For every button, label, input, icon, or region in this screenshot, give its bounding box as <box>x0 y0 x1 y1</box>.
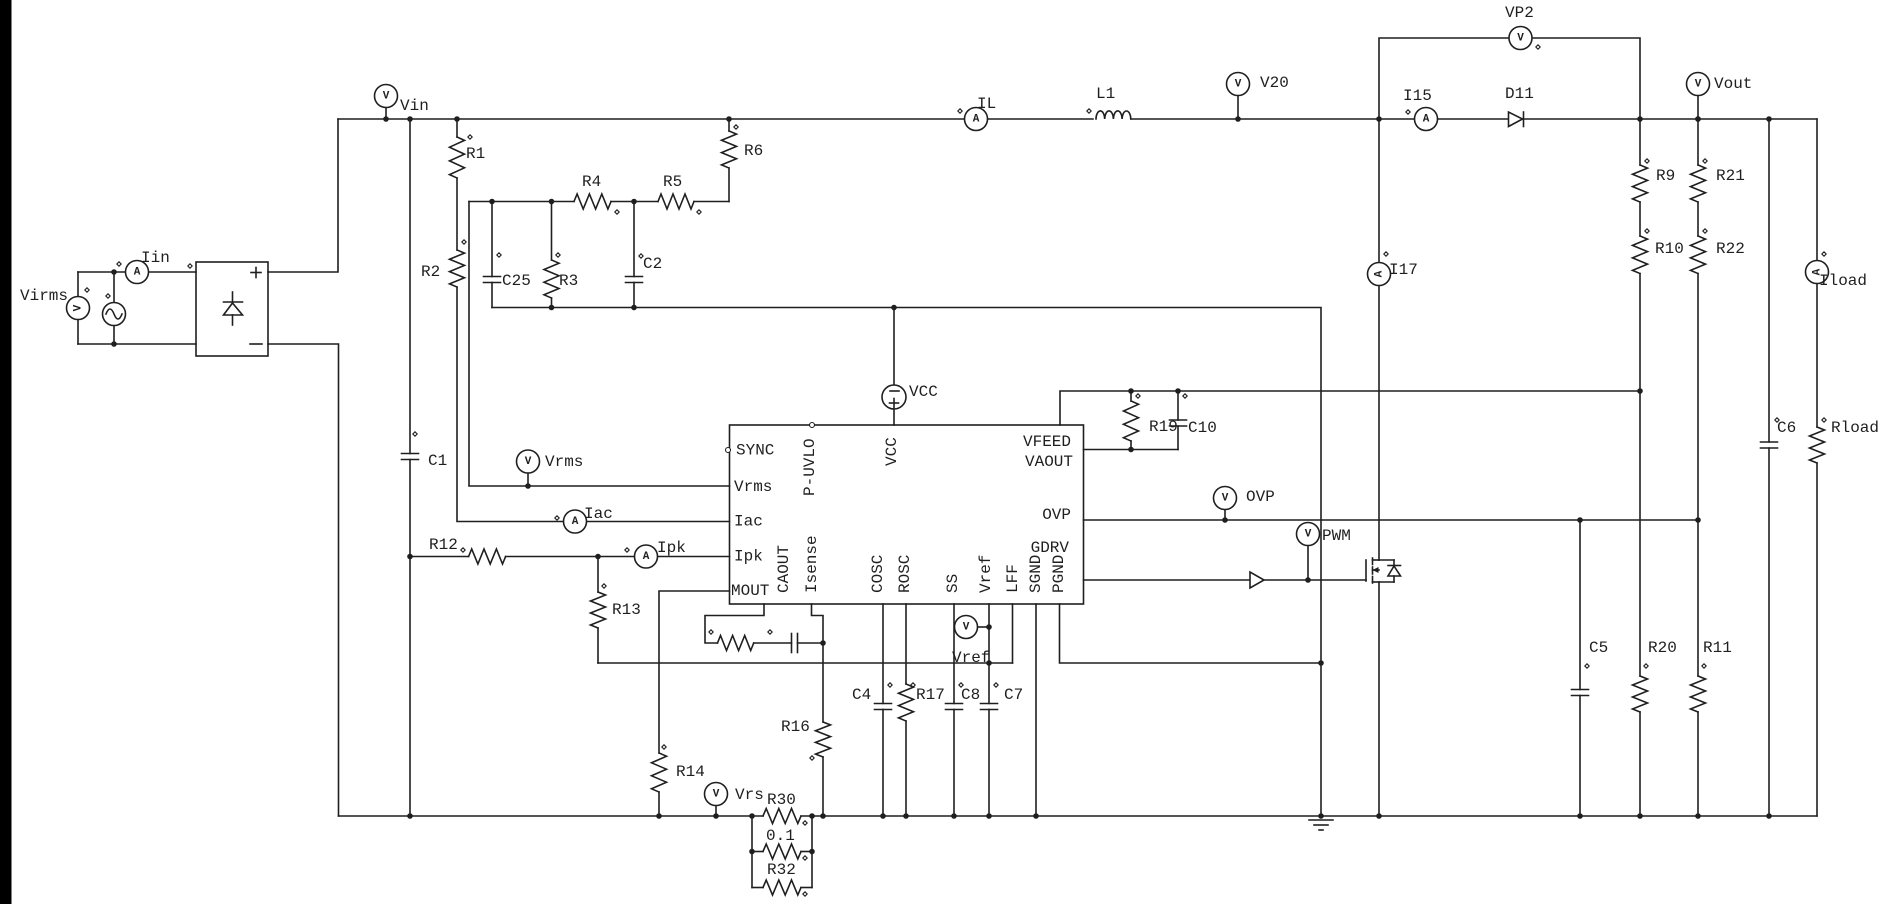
svg-text:C6: C6 <box>1777 419 1796 437</box>
capacitor C8 (SS) <box>953 604 955 704</box>
resistor R17 (ROSC) <box>905 604 907 684</box>
svg-text:V: V <box>1305 529 1312 541</box>
svg-text:Rload: Rload <box>1831 419 1879 437</box>
resistor R32 (parallel) <box>752 887 763 889</box>
wire: Ccomp to Isense column <box>798 642 824 644</box>
capacitor C25 <box>489 199 495 205</box>
wire: switch column (drain) <box>1378 119 1380 560</box>
ammeter Ipk <box>635 545 658 568</box>
node: C2 on sub-rail <box>631 305 637 311</box>
svg-text:L1: L1 <box>1096 85 1115 103</box>
svg-text:C25: C25 <box>502 272 531 290</box>
node: C5 on OVP line <box>1577 517 1583 523</box>
resistor 0.1 (parallel) <box>752 851 763 853</box>
wire: bridge + output up to Vin rail <box>268 119 338 272</box>
pin label SYNC <box>726 448 731 453</box>
wire: VP2 measurement loop <box>1379 38 1640 119</box>
ammeter I17 <box>1368 263 1391 286</box>
svg-text:A: A <box>1423 114 1430 126</box>
capacitor C5 <box>1579 520 1581 690</box>
svg-text:R1: R1 <box>466 145 485 163</box>
svg-text:Iac: Iac <box>734 513 763 531</box>
wire: SGND pin to ground rail <box>1035 604 1037 816</box>
node: source top junction <box>111 269 117 275</box>
resistor R9 <box>1639 119 1641 165</box>
svg-text:SGND: SGND <box>1027 555 1045 593</box>
svg-text:Iload: Iload <box>1819 272 1867 290</box>
wire: source branch vertical <box>113 272 115 344</box>
svg-text:VCC: VCC <box>883 437 901 466</box>
svg-text:CAOUT: CAOUT <box>775 545 793 593</box>
supply VCC source <box>882 385 906 409</box>
wire: source loop top <box>78 271 196 273</box>
svg-text:Vref: Vref <box>977 555 995 593</box>
wire: bottom ground rail <box>339 815 764 817</box>
voltmeter PWM <box>1307 545 1309 580</box>
svg-text:0.1: 0.1 <box>766 827 795 845</box>
capacitor Ccomp (CAOUT network) <box>791 634 793 653</box>
node: R13 taps Ipk wire <box>595 554 601 560</box>
svg-text:SYNC: SYNC <box>736 442 774 460</box>
node: PGND joins ground column <box>1318 660 1324 666</box>
node: C1 column on rail <box>407 116 413 122</box>
resistor R21 <box>1695 116 1701 122</box>
svg-text:V20: V20 <box>1260 74 1289 92</box>
svg-text:R30: R30 <box>767 791 796 809</box>
wire: MOUT pin to R14 <box>659 591 730 753</box>
resistor R4 <box>574 194 611 209</box>
wire: CAOUT pin stub <box>705 604 764 643</box>
wire: R13 bottom rail to LFF <box>598 662 1013 664</box>
svg-text:MOUT: MOUT <box>731 582 769 600</box>
svg-text:V: V <box>1695 79 1702 91</box>
svg-text:COSC: COSC <box>869 555 887 593</box>
node: R3 on sub-rail <box>549 305 555 311</box>
capacitor C6 <box>1766 116 1772 122</box>
resistor R16 <box>816 722 831 757</box>
svg-text:R9: R9 <box>1656 167 1675 185</box>
resistor R6 <box>728 119 730 131</box>
wire: rail corner to load column <box>1816 119 1818 427</box>
node: R1 column on rail <box>454 116 460 122</box>
wire: R22 to R11 <box>1697 274 1699 677</box>
wire: node rail down to Vrms pin <box>469 202 730 487</box>
svg-text:R16: R16 <box>781 718 810 736</box>
bridge rectifier B1 box <box>196 262 268 356</box>
node: C1 on ground rail <box>407 813 413 819</box>
ammeter Iin <box>126 261 149 284</box>
resistor Rcomp (CAOUT network) <box>718 636 754 651</box>
ground symbol <box>1318 813 1324 819</box>
svg-text:P-UVLO: P-UVLO <box>801 438 819 496</box>
capacitor C2 <box>631 199 637 205</box>
wire: switch column (source to ground) <box>1378 582 1380 816</box>
wire: divider node rail <box>469 201 574 203</box>
svg-text:Vref: Vref <box>952 649 990 667</box>
wire: LFF pin stub <box>1012 604 1014 663</box>
resistor R30 (in rail) <box>763 809 801 824</box>
node: VCC stem on sub-rail <box>891 305 897 311</box>
wire: PGND pin to ground column <box>1060 604 1322 663</box>
node: R14 on ground rail <box>656 813 662 819</box>
resistor R13 <box>597 557 599 593</box>
wire: OVP pin line <box>1084 519 1699 521</box>
ammeter IL <box>965 108 988 131</box>
wire: Isense pin stub down to R16 <box>812 604 824 722</box>
svg-text:C4: C4 <box>852 686 871 704</box>
svg-text:Ipk: Ipk <box>657 539 686 557</box>
svg-text:A: A <box>134 267 141 279</box>
capacitor C7 (Vref) <box>988 604 990 704</box>
resistor R1 <box>456 119 458 137</box>
svg-text:R12: R12 <box>429 536 458 554</box>
pin label P-UVLO <box>810 423 815 428</box>
svg-text:LFF: LFF <box>1004 564 1022 593</box>
svg-text:R14: R14 <box>676 763 705 781</box>
voltmeter V20 <box>1237 96 1239 119</box>
wire: VCC feedback rail <box>1060 391 1640 425</box>
resistor R5 <box>658 194 694 209</box>
svg-text:R2: R2 <box>421 263 440 281</box>
node: R12 taps C1 column <box>407 554 413 560</box>
node: R6 column on rail <box>726 116 732 122</box>
voltmeter Vref <box>978 626 990 628</box>
resistor R20 <box>1633 676 1648 712</box>
svg-text:R17: R17 <box>916 686 945 704</box>
resistor R2 <box>450 250 465 287</box>
svg-text:Iac: Iac <box>584 505 613 523</box>
diode D11 <box>1509 112 1523 127</box>
svg-text:C10: C10 <box>1188 419 1217 437</box>
svg-text:R4: R4 <box>582 173 601 191</box>
svg-text:V: V <box>73 304 85 311</box>
svg-text:C1: C1 <box>428 452 447 470</box>
node: VP2 right leg on rail <box>1637 116 1643 122</box>
wire: R1 to R2 <box>456 178 458 250</box>
voltmeter VP2 <box>1509 27 1532 50</box>
wire: Rcomp to Ccomp <box>754 642 792 644</box>
svg-text:PWM: PWM <box>1322 527 1351 545</box>
transistor Q1 (MOSFET) <box>1365 560 1367 581</box>
svg-text:R10: R10 <box>1655 240 1684 258</box>
svg-text:A: A <box>643 551 650 563</box>
svg-text:R5: R5 <box>663 173 682 191</box>
wire: VCC stem <box>893 308 895 386</box>
svg-text:IL: IL <box>977 95 996 113</box>
wire: buffer to gate <box>1264 579 1366 581</box>
wire: source loop bottom <box>78 343 196 345</box>
voltmeter Virms <box>67 297 90 320</box>
wire: VFEED pin <box>1084 449 1179 451</box>
svg-text:OVP: OVP <box>1246 488 1275 506</box>
svg-text:R22: R22 <box>1716 240 1745 258</box>
svg-text:C2: C2 <box>643 255 662 273</box>
svg-text:V: V <box>713 789 720 801</box>
AC source V1 <box>103 303 126 326</box>
svg-text:R20: R20 <box>1648 639 1677 657</box>
svg-text:D11: D11 <box>1505 85 1534 103</box>
capacitor C1 <box>409 119 411 454</box>
svg-text:A: A <box>572 516 579 528</box>
svg-text:A: A <box>1374 270 1386 277</box>
svg-text:Virms: Virms <box>20 287 68 305</box>
svg-text:R21: R21 <box>1716 167 1745 185</box>
wire: main top rail (Vin node) <box>338 118 1093 120</box>
svg-text:VP2: VP2 <box>1505 4 1534 22</box>
voltmeter Vin <box>385 108 387 119</box>
capacitor C4 (COSC) <box>882 604 884 704</box>
wire: R10 to R20 <box>1639 274 1641 677</box>
resistor R3 <box>549 199 555 205</box>
svg-text:C5: C5 <box>1589 639 1608 657</box>
svg-text:Vrs: Vrs <box>735 786 764 804</box>
node: OVP line to R22/R11 column <box>1695 517 1701 523</box>
svg-text:I17: I17 <box>1389 261 1418 279</box>
resistor R10 <box>1639 202 1641 236</box>
wire: sub-rail to PGND ground column <box>492 308 1321 817</box>
R30/R32 parallel network right leg <box>811 816 813 888</box>
svg-text:Ipk: Ipk <box>734 548 763 566</box>
voltmeter Vrms <box>527 473 529 486</box>
polarity marks <box>85 288 89 292</box>
svg-text:VCC: VCC <box>909 383 938 401</box>
inductor L1 <box>1096 111 1131 119</box>
svg-text:VFEED: VFEED <box>1023 433 1071 451</box>
resistor R14 <box>652 753 667 792</box>
svg-text:GDRV: GDRV <box>1031 539 1070 557</box>
svg-text:R13: R13 <box>612 601 641 619</box>
node: source bottom junction <box>111 341 117 347</box>
ammeter I15 <box>1415 108 1438 131</box>
svg-text:Iin: Iin <box>141 249 170 267</box>
svg-text:VAOUT: VAOUT <box>1025 453 1073 471</box>
svg-text:Vrms: Vrms <box>545 453 583 471</box>
svg-text:OVP: OVP <box>1042 506 1071 524</box>
svg-text:R32: R32 <box>767 861 796 879</box>
svg-text:V: V <box>1517 33 1524 45</box>
resistor R19 <box>1128 388 1134 394</box>
svg-text:C7: C7 <box>1004 686 1023 704</box>
svg-text:R6: R6 <box>744 142 763 160</box>
svg-text:I15: I15 <box>1403 87 1432 105</box>
transistor Q1 body diode <box>1379 559 1394 561</box>
svg-text:V: V <box>383 91 390 103</box>
voltmeter OVP <box>1224 509 1226 520</box>
resistor R11 <box>1691 676 1706 712</box>
wire: GDRV pin line <box>1084 579 1251 581</box>
svg-text:V: V <box>525 456 532 468</box>
ammeter Iload <box>1806 261 1829 284</box>
wire: R2 bottom to Iac pin <box>457 287 730 522</box>
resistor R22 <box>1697 202 1699 236</box>
wire: R12 to Ipk pin <box>506 556 730 558</box>
svg-text:ROSC: ROSC <box>896 555 914 593</box>
node: VP2/I17 junction on rail <box>1376 116 1382 122</box>
bridge minus terminal mark <box>250 343 262 345</box>
node: Vref column on LFF rail <box>986 660 992 666</box>
buffer (gate driver) <box>1250 572 1264 588</box>
svg-text:PGND: PGND <box>1050 555 1068 593</box>
svg-text:C8: C8 <box>961 686 980 704</box>
resistor Rload <box>1810 427 1825 463</box>
bridge rectifier internal diode <box>232 292 234 303</box>
svg-text:A: A <box>973 114 980 126</box>
svg-text:Vrms: Vrms <box>734 478 772 496</box>
wire: Virms branch vertical <box>77 272 79 344</box>
voltmeter Vout <box>1697 96 1699 119</box>
svg-text:SS: SS <box>944 574 962 593</box>
svg-text:V: V <box>1222 493 1229 505</box>
capacitor C10 <box>1175 388 1181 394</box>
svg-text:V: V <box>1235 79 1242 91</box>
resistor R12 <box>410 556 469 558</box>
bridge plus terminal mark <box>251 272 261 274</box>
svg-text:Vin: Vin <box>400 97 429 115</box>
op-amp controller U1 (PFC controller IC) <box>730 425 1084 604</box>
svg-text:R3: R3 <box>559 272 578 290</box>
R30/R32 parallel network left leg <box>751 816 753 888</box>
svg-text:V: V <box>963 622 970 634</box>
ammeter Iac <box>564 510 587 533</box>
svg-text:Vout: Vout <box>1714 75 1752 93</box>
left window border bar <box>0 0 12 904</box>
svg-text:Isense: Isense <box>803 535 821 593</box>
node: VCC rail on R9 column <box>1637 388 1643 394</box>
svg-text:R11: R11 <box>1703 639 1732 657</box>
voltmeter Vrs <box>715 805 717 816</box>
wire: bridge - output down to ground rail <box>268 344 339 816</box>
